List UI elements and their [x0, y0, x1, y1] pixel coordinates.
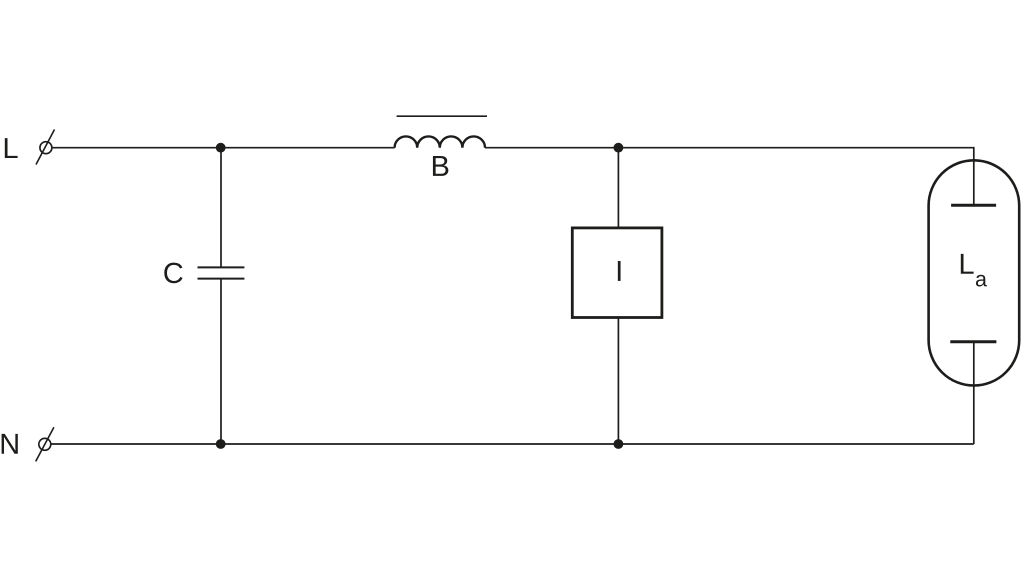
lamp electrode top [951, 204, 996, 207]
node junction top-left [216, 143, 226, 153]
wire lamp top lead [973, 147, 975, 205]
wire top: inductor to lamp [485, 147, 974, 149]
inductor B (ballast) [395, 136, 485, 147]
wire capacitor upper lead [220, 148, 222, 267]
lamp La envelope [929, 160, 1020, 385]
wire bottom: terminal N to lamp [51, 443, 974, 445]
terminal N [36, 427, 54, 461]
label C [164, 263, 182, 284]
label I [618, 261, 621, 281]
inductor B core line [397, 115, 487, 117]
wire ignitor upper lead [617, 148, 619, 228]
node junction bottom-left [216, 439, 226, 449]
label L [5, 138, 18, 158]
wire top: terminal L to inductor [52, 147, 395, 149]
ignitor box I [572, 228, 662, 318]
capacitor C plates [198, 267, 245, 278]
wire lamp bottom lead [973, 342, 975, 444]
label La [961, 254, 987, 287]
terminal L [36, 130, 55, 165]
node junction top-right [614, 143, 624, 153]
label N [2, 434, 18, 454]
label B [433, 156, 448, 176]
lamp electrode bottom [950, 340, 996, 343]
wire capacitor lower lead [220, 279, 222, 444]
wire ignitor lower lead [617, 318, 619, 445]
node junction bottom-right [614, 439, 624, 449]
